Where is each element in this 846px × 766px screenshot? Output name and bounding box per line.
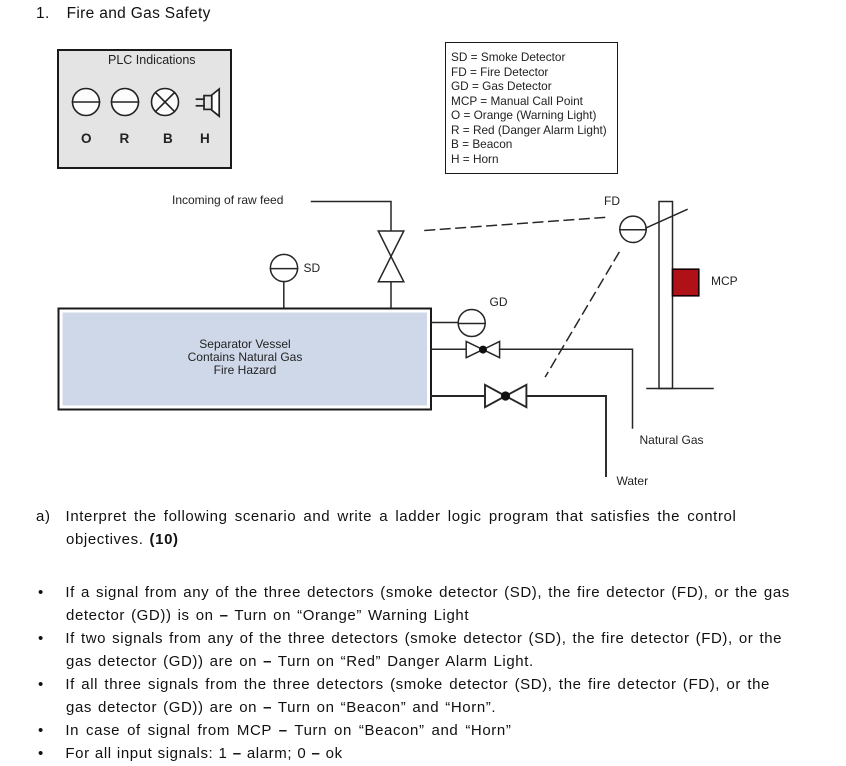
bullet 1 line 2 [66, 607, 469, 624]
natural gas valve (bowtie with dot) [466, 342, 499, 358]
ground line [647, 388, 713, 390]
gas detector GD symbol [458, 310, 485, 337]
bullet 3 line 2 [66, 699, 496, 716]
PLC Indications panel [57, 49, 232, 169]
dashed sight line valve to FD [425, 217, 606, 230]
lamp label O [81, 131, 92, 146]
bullet 2 line 1 [38, 630, 782, 647]
GD stub pipe [432, 322, 459, 324]
bullet 5 [38, 745, 343, 762]
question a) line 1 [36, 508, 736, 525]
lamp R (red danger alarm light) [112, 89, 139, 116]
bullet 3 line 1 [38, 676, 770, 693]
PLC Indications title [108, 53, 196, 67]
lamp label R [120, 131, 130, 146]
beacon B [152, 89, 179, 116]
label: incoming of raw feed [172, 193, 283, 207]
bullet 1 line 1 [38, 584, 790, 601]
heading: 1. Fire and Gas Safety [36, 5, 211, 23]
dashed sight line FD to water valve [546, 253, 620, 377]
label Natural Gas [640, 433, 704, 447]
SD stem to vessel [283, 282, 285, 308]
beacon label B [163, 131, 173, 146]
vessel caption [58, 338, 432, 378]
label FD [604, 194, 620, 208]
water pipe to outlet [526, 396, 606, 476]
fire detector FD symbol [620, 216, 646, 242]
bullet 4 [38, 722, 511, 739]
water valve (bowtie with dot) [485, 385, 526, 407]
water pipe from vessel [432, 395, 486, 397]
horn label H [200, 131, 210, 146]
horn H speaker icon [197, 89, 220, 116]
label Water [617, 474, 649, 488]
wall / post [659, 202, 673, 389]
natural gas pipe to outlet [500, 349, 633, 428]
legend box [445, 42, 618, 174]
separator vessel [59, 309, 432, 410]
FD sight line through wall [646, 210, 687, 229]
natural gas pipe from vessel [432, 348, 467, 350]
pipe valve to vessel [390, 282, 392, 308]
inlet valve (vertical bowtie) [378, 231, 404, 282]
bullet 2 line 2 [66, 653, 534, 670]
incoming feed pipe (horizontal + drop to valve) [312, 202, 392, 232]
label GD [490, 295, 508, 309]
question a) line 2 [66, 531, 179, 548]
MCP manual call point (red box) [673, 269, 699, 296]
label MCP [711, 274, 738, 288]
label SD [304, 261, 321, 275]
smoke detector SD symbol [270, 254, 297, 281]
lamp O (orange warning light) [73, 89, 100, 116]
